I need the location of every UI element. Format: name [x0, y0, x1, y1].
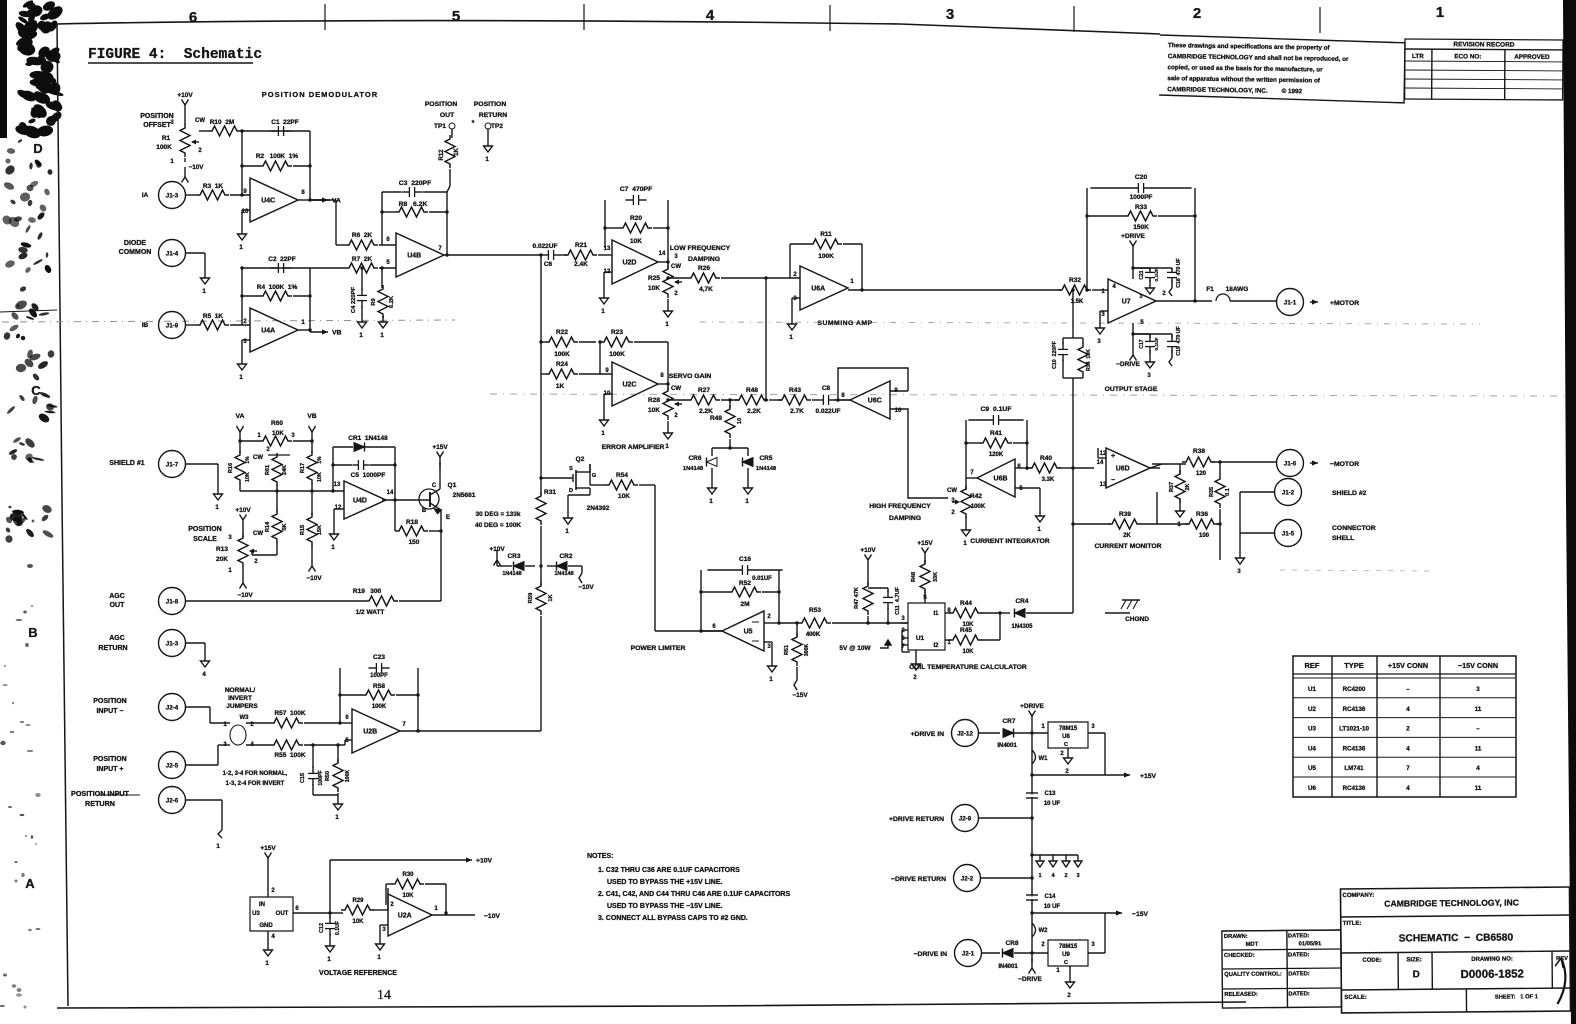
svg-text:R3 1K: R3 1K: [203, 183, 224, 190]
svg-text:J1-7: J1-7: [166, 462, 179, 469]
svg-text:FIGURE 4: Schematic: FIGURE 4: Schematic: [88, 47, 262, 63]
svg-text:J2-9: J2-9: [959, 816, 972, 823]
svg-text:RETURN: RETURN: [85, 799, 115, 808]
svg-text:14: 14: [387, 490, 394, 496]
svg-text:1K: 1K: [556, 383, 565, 390]
svg-text:POSITION DEMODULATOR: POSITION DEMODULATOR: [262, 90, 378, 99]
svg-text:GND: GND: [259, 923, 273, 929]
svg-text:120K: 120K: [989, 452, 1004, 458]
svg-text:CR3: CR3: [507, 553, 520, 560]
svg-text:CR5: CR5: [759, 455, 772, 462]
svg-text:R49: R49: [710, 415, 722, 422]
svg-text:C7 470PF: C7 470PF: [620, 186, 653, 193]
svg-text:−DRIVE RETURN: −DRIVE RETURN: [891, 876, 946, 883]
svg-text:C1 22PF: C1 22PF: [271, 119, 298, 126]
svg-text:1/2 WATT: 1/2 WATT: [356, 609, 385, 616]
svg-text:U9: U9: [1062, 952, 1070, 958]
svg-text:11: 11: [1475, 745, 1482, 752]
svg-text:JUMPERS: JUMPERS: [226, 703, 258, 710]
svg-text:VOLTAGE REFERENCE: VOLTAGE REFERENCE: [319, 970, 397, 977]
svg-text:R11: R11: [820, 231, 832, 238]
svg-text:R37: R37: [1169, 482, 1175, 492]
svg-text:+DRIVE: +DRIVE: [1121, 233, 1145, 240]
svg-text:J2-4: J2-4: [166, 705, 179, 712]
svg-text:3: 3: [1139, 294, 1142, 300]
svg-text:+10V: +10V: [860, 547, 876, 554]
svg-text:0.022UF: 0.022UF: [533, 243, 558, 250]
svg-text:SIZE:: SIZE:: [1406, 957, 1421, 963]
svg-text:U2C: U2C: [622, 382, 636, 389]
svg-text:CR6: CR6: [688, 455, 701, 462]
svg-text:R10 2M: R10 2M: [210, 119, 235, 126]
svg-text:RC4136: RC4136: [1343, 785, 1366, 792]
svg-text:R22: R22: [556, 329, 568, 336]
svg-text:LTR: LTR: [1412, 53, 1424, 60]
svg-text:RC4200: RC4200: [1343, 686, 1366, 693]
svg-text:SHEET: 1 OF 1: SHEET: 1 OF 1: [1495, 994, 1539, 1000]
svg-text:10 UF: 10 UF: [1044, 801, 1061, 807]
svg-text:R51: R51: [784, 645, 790, 655]
svg-text:300K: 300K: [804, 644, 810, 657]
svg-text:POSITION: POSITION: [474, 101, 507, 108]
svg-text:0.01UF: 0.01UF: [752, 576, 772, 582]
svg-text:2M: 2M: [740, 601, 749, 608]
svg-text:1%: 1%: [245, 456, 251, 464]
svg-text:R8 6.2K: R8 6.2K: [399, 201, 428, 208]
svg-text:100K: 100K: [372, 704, 387, 710]
svg-text:R43: R43: [789, 387, 801, 394]
svg-text:R28: R28: [648, 397, 660, 404]
svg-text:−10V: −10V: [306, 575, 322, 582]
svg-text:B: B: [28, 625, 37, 640]
svg-text:1-3, 2-4 FOR INVERT: 1-3, 2-4 FOR INVERT: [226, 781, 285, 787]
svg-text:C4 220PF: C4 220PF: [351, 286, 357, 313]
svg-text:2: 2: [1064, 873, 1067, 879]
svg-text:U6C: U6C: [868, 398, 882, 405]
svg-text:100K: 100K: [156, 144, 172, 151]
svg-text:R17: R17: [300, 463, 306, 473]
svg-text:2: 2: [1193, 5, 1201, 22]
svg-text:U6D: U6D: [1116, 466, 1130, 473]
svg-text:R45: R45: [960, 627, 972, 634]
svg-text:−DRIVE: −DRIVE: [1116, 361, 1140, 368]
svg-text:ECO NO:: ECO NO:: [1454, 53, 1481, 60]
svg-text:CONNECTOR: CONNECTOR: [1332, 525, 1376, 532]
svg-text:10K: 10K: [648, 285, 660, 292]
svg-text:CAMBRIDGE TECHNOLOGY, INC: CAMBRIDGE TECHNOLOGY, INC: [1384, 897, 1519, 908]
svg-text:1: 1: [1436, 4, 1444, 21]
svg-text:+10V: +10V: [177, 92, 193, 99]
svg-text:REVISION RECORD: REVISION RECORD: [1453, 41, 1514, 48]
svg-text:R13: R13: [216, 546, 228, 553]
svg-text:CR2: CR2: [559, 553, 572, 560]
svg-text:R4 100K 1%: R4 100K 1%: [257, 284, 298, 291]
svg-text:AGC: AGC: [109, 593, 125, 600]
svg-text:0.1: 0.1: [1225, 488, 1231, 496]
svg-text:2N4392: 2N4392: [587, 505, 610, 512]
svg-text:1-2, 3-4 FOR NORMAL,: 1-2, 3-4 FOR NORMAL,: [223, 771, 288, 777]
svg-text:100K: 100K: [554, 351, 570, 358]
svg-text:TITLE:: TITLE:: [1343, 921, 1362, 927]
svg-text:OUT: OUT: [110, 602, 126, 609]
svg-text:U5: U5: [1308, 765, 1316, 772]
svg-text:R7 2K: R7 2K: [352, 256, 373, 263]
svg-text:LT1021-10: LT1021-10: [1339, 726, 1369, 733]
svg-text:1N4305: 1N4305: [1011, 624, 1033, 630]
svg-text:R59: R59: [528, 592, 534, 603]
svg-text:1N4148: 1N4148: [683, 466, 704, 472]
svg-text:R38: R38: [1193, 448, 1205, 455]
svg-text:01/05/91: 01/05/91: [1299, 941, 1322, 947]
svg-text:C2 22PF: C2 22PF: [268, 256, 295, 263]
svg-text:−15V: −15V: [792, 692, 808, 699]
svg-text:SUMMING AMP: SUMMING AMP: [817, 320, 872, 327]
svg-text:ERROR AMPLIFIER: ERROR AMPLIFIER: [602, 444, 665, 451]
svg-text:CR7: CR7: [1002, 718, 1015, 725]
svg-text:NORMAL/: NORMAL/: [225, 687, 256, 694]
svg-text:3: 3: [1476, 686, 1480, 693]
svg-text:C21: C21: [1139, 270, 1145, 279]
svg-text:QUALITY CONTROL:: QUALITY CONTROL:: [1224, 972, 1282, 979]
svg-text:DATED:: DATED:: [1288, 952, 1310, 958]
svg-text:R50: R50: [325, 771, 331, 781]
svg-text:SERVO GAIN: SERVO GAIN: [669, 373, 712, 380]
svg-text:12: 12: [335, 505, 342, 511]
svg-text:4: 4: [1406, 745, 1410, 752]
svg-text:OUT: OUT: [276, 911, 289, 917]
svg-text:3. CONNECT ALL BYPASS CAPS TO: 3. CONNECT ALL BYPASS CAPS TO #2 GND.: [598, 915, 748, 922]
svg-text:−: −: [1111, 477, 1115, 484]
svg-text:U3: U3: [1308, 726, 1316, 733]
svg-text:4: 4: [1476, 765, 1480, 772]
svg-text:2: 2: [1406, 726, 1410, 733]
svg-text:COMMON: COMMON: [119, 249, 152, 256]
svg-text:R57 100K: R57 100K: [274, 710, 305, 717]
svg-text:VB: VB: [307, 413, 317, 420]
svg-text:100K: 100K: [818, 253, 834, 260]
svg-text:C3 220PF: C3 220PF: [399, 180, 432, 187]
svg-text:INPUT −: INPUT −: [96, 708, 123, 715]
svg-text:USED TO BYPASS THE −15V LINE.: USED TO BYPASS THE −15V LINE.: [607, 903, 723, 910]
svg-text:C5 1000PF: C5 1000PF: [351, 472, 386, 479]
svg-text:G: G: [592, 473, 596, 479]
svg-text:−15V CONN: −15V CONN: [1458, 661, 1498, 670]
svg-text:1000PF: 1000PF: [1130, 194, 1153, 201]
svg-text:1N4148: 1N4148: [554, 571, 573, 577]
svg-text:A: A: [25, 876, 35, 891]
svg-text:R52: R52: [739, 580, 751, 587]
svg-text:2.2K: 2.2K: [699, 408, 713, 415]
svg-text:IN4001: IN4001: [998, 964, 1018, 970]
svg-text:J1-6: J1-6: [1284, 461, 1297, 468]
svg-text:2.4K: 2.4K: [574, 261, 588, 268]
svg-text:W1: W1: [1039, 756, 1049, 762]
svg-text:2.2K: 2.2K: [747, 408, 761, 415]
svg-text:C8: C8: [822, 385, 831, 392]
svg-text:R2 100K 1%: R2 100K 1%: [256, 153, 298, 160]
svg-text:100K: 100K: [971, 504, 986, 510]
svg-text:150: 150: [409, 539, 420, 546]
svg-text:CW: CW: [671, 386, 681, 392]
svg-text:POSITION: POSITION: [425, 101, 458, 108]
svg-text:DAMPING: DAMPING: [889, 515, 921, 522]
svg-text:C13: C13: [1044, 791, 1056, 797]
svg-text:−10V: −10V: [484, 913, 501, 920]
svg-text:R24: R24: [556, 361, 568, 368]
svg-text:R53: R53: [809, 607, 821, 614]
svg-text:NOTES:: NOTES:: [587, 853, 613, 860]
svg-text:10K: 10K: [630, 238, 642, 245]
svg-text:5K: 5K: [282, 523, 288, 530]
svg-text:CR4: CR4: [1015, 598, 1028, 605]
svg-text:3: 3: [946, 6, 954, 23]
svg-text:C19 470 UF: C19 470 UF: [1176, 326, 1182, 355]
svg-text:R5 1K: R5 1K: [203, 313, 224, 320]
svg-text:CHECKED:: CHECKED:: [1224, 953, 1255, 959]
svg-text:100K: 100K: [345, 770, 351, 783]
svg-text:+DRIVE: +DRIVE: [1020, 703, 1044, 710]
svg-text:APPROVED: APPROVED: [1514, 54, 1550, 61]
svg-text:2K: 2K: [1123, 533, 1131, 539]
svg-text:U4B: U4B: [407, 253, 421, 260]
svg-text:TYPE: TYPE: [1344, 661, 1364, 670]
svg-text:−MOTOR: −MOTOR: [1330, 461, 1359, 468]
svg-text:POWER LIMITER: POWER LIMITER: [631, 645, 686, 652]
svg-text:12: 12: [1100, 451, 1107, 457]
svg-text:U8: U8: [1062, 734, 1070, 740]
svg-text:IN4001: IN4001: [997, 743, 1017, 749]
svg-text:400K: 400K: [806, 632, 821, 638]
svg-text:1K: 1K: [548, 593, 554, 601]
svg-text:R12: R12: [439, 149, 445, 161]
svg-text:R16: R16: [228, 463, 234, 473]
svg-text:R60: R60: [271, 420, 283, 427]
svg-text:C20: C20: [1135, 174, 1148, 181]
svg-text:R34 10K: R34 10K: [1086, 349, 1092, 371]
svg-text:33K: 33K: [933, 572, 939, 582]
svg-text:R6 2K: R6 2K: [352, 232, 373, 239]
svg-text:+15V: +15V: [917, 540, 933, 547]
svg-text:W2: W2: [1039, 928, 1049, 934]
svg-text:RETURN: RETURN: [479, 112, 507, 119]
svg-text:10K: 10K: [272, 430, 284, 437]
svg-text:C18 470 UF: C18 470 UF: [1176, 258, 1182, 287]
svg-text:D: D: [33, 141, 42, 156]
svg-text:−10V: −10V: [237, 592, 253, 599]
svg-text:3: 3: [1076, 873, 1079, 879]
svg-text:5: 5: [452, 8, 460, 25]
svg-text:C: C: [31, 383, 41, 398]
svg-text:OUTPUT STAGE: OUTPUT STAGE: [1105, 386, 1158, 393]
svg-text:SCALE: SCALE: [193, 536, 217, 543]
svg-text:U6: U6: [1308, 785, 1316, 792]
svg-text:VB: VB: [332, 330, 342, 337]
svg-text:10K: 10K: [648, 407, 660, 414]
svg-text:U5: U5: [744, 629, 753, 636]
svg-text:+15V CONN: +15V CONN: [1388, 661, 1428, 670]
svg-text:CHGND: CHGND: [1125, 616, 1149, 623]
svg-text:U4A: U4A: [261, 328, 275, 335]
svg-text:R39: R39: [1119, 511, 1131, 518]
svg-text:I2: I2: [933, 643, 939, 649]
svg-text:COIL TEMPERATURE CALCULATOR: COIL TEMPERATURE CALCULATOR: [909, 664, 1027, 671]
svg-text:C: C: [1064, 742, 1068, 748]
svg-text:+: +: [1111, 453, 1115, 460]
svg-text:100K: 100K: [609, 351, 625, 358]
svg-text:J1-9: J1-9: [166, 323, 179, 330]
svg-text:10K: 10K: [245, 472, 251, 482]
svg-text:SHELL: SHELL: [1332, 535, 1354, 542]
svg-text:CW: CW: [253, 455, 263, 461]
svg-text:R26: R26: [698, 265, 710, 272]
svg-text:4,7K: 4,7K: [699, 286, 713, 293]
svg-text:*: *: [472, 120, 475, 127]
svg-text:CW: CW: [195, 118, 205, 124]
svg-text:RELEASED:: RELEASED:: [1224, 992, 1258, 998]
svg-text:SHIELD #1: SHIELD #1: [109, 460, 145, 467]
svg-text:14: 14: [1097, 460, 1104, 466]
svg-text:RETURN: RETURN: [98, 645, 127, 652]
svg-text:C14: C14: [1044, 894, 1056, 900]
svg-text:E: E: [446, 515, 450, 521]
svg-text:CR8: CR8: [1005, 940, 1018, 947]
svg-text:R29: R29: [352, 898, 364, 904]
svg-text:C: C: [432, 483, 437, 489]
svg-text:R48: R48: [746, 387, 758, 394]
svg-text:U6A: U6A: [811, 286, 825, 293]
svg-text:J1-2: J1-2: [1282, 490, 1295, 497]
svg-text:U1: U1: [916, 635, 925, 642]
svg-text:D0006-1852: D0006-1852: [1461, 968, 1524, 981]
svg-text:−10V: −10V: [578, 584, 594, 591]
svg-text:10 UF: 10 UF: [1044, 904, 1061, 910]
svg-text:DRAWN:: DRAWN:: [1224, 934, 1248, 940]
svg-text:C15: C15: [300, 773, 306, 783]
svg-text:C23: C23: [373, 654, 385, 661]
svg-text:+DRIVE IN: +DRIVE IN: [911, 731, 945, 738]
svg-text:5V @ 10W: 5V @ 10W: [839, 645, 871, 652]
svg-text:I1: I1: [933, 611, 939, 617]
svg-text:–: –: [1406, 686, 1410, 693]
svg-text:LOW FREQUENCY: LOW FREQUENCY: [670, 245, 731, 252]
svg-text:1%: 1%: [317, 456, 323, 464]
svg-text:11: 11: [1475, 785, 1482, 792]
svg-text:COMPANY:: COMPANY:: [1343, 893, 1375, 899]
svg-text:2K: 2K: [1185, 483, 1191, 490]
svg-text:R42: R42: [970, 493, 982, 500]
svg-text:100PF: 100PF: [370, 673, 388, 679]
svg-text:78M15: 78M15: [1059, 944, 1078, 950]
svg-text:10K: 10K: [352, 919, 364, 925]
svg-text:RC4136: RC4136: [1343, 706, 1366, 713]
svg-text:0.1UF: 0.1UF: [335, 921, 341, 935]
svg-text:7: 7: [1406, 765, 1410, 772]
svg-text:U2D: U2D: [622, 260, 636, 267]
svg-text:VA: VA: [236, 413, 245, 420]
svg-text:+10V: +10V: [476, 858, 493, 865]
svg-text:CW: CW: [947, 488, 957, 494]
svg-text:15K: 15K: [317, 525, 323, 535]
svg-text:USED TO BYPASS THE +15V LINE.: USED TO BYPASS THE +15V LINE.: [607, 879, 723, 886]
svg-text:C12: C12: [319, 923, 325, 933]
svg-text:13: 13: [1100, 482, 1107, 488]
svg-text:R15: R15: [300, 525, 306, 535]
svg-text:R30: R30: [402, 872, 414, 878]
svg-text:R23: R23: [611, 329, 623, 336]
svg-text:2. C41, C42, AND C44 THRU C46: 2. C41, C42, AND C44 THRU C46 ARE 0.1UF …: [598, 891, 790, 898]
svg-text:U1: U1: [1308, 686, 1316, 693]
svg-text:DATED:: DATED:: [1288, 933, 1310, 939]
svg-text:30 DEG = 133k: 30 DEG = 133k: [476, 511, 521, 518]
svg-text:CW: CW: [671, 264, 681, 270]
svg-text:2.7K: 2.7K: [790, 408, 804, 415]
svg-text:TP1: TP1: [434, 123, 446, 130]
svg-text:LM741: LM741: [1344, 765, 1364, 772]
svg-text:R18: R18: [406, 519, 418, 526]
svg-text:R9: R9: [371, 298, 377, 306]
svg-text:U3: U3: [252, 911, 260, 917]
svg-text:10K: 10K: [962, 649, 974, 655]
svg-text:+10V: +10V: [235, 507, 251, 514]
svg-text:+15V: +15V: [1140, 773, 1157, 780]
svg-text:R54: R54: [616, 472, 628, 479]
svg-text:AGC: AGC: [109, 635, 125, 642]
svg-text:POSITION: POSITION: [93, 698, 126, 705]
svg-text:CURRENT INTEGRATOR: CURRENT INTEGRATOR: [970, 538, 1050, 545]
svg-text:U4C: U4C: [261, 198, 275, 205]
svg-text:DIODE: DIODE: [124, 240, 147, 247]
svg-text:R48: R48: [911, 572, 917, 582]
svg-text:R1: R1: [162, 135, 171, 142]
svg-text:R61: R61: [265, 465, 271, 475]
svg-text:CURRENT MONITOR: CURRENT MONITOR: [1094, 543, 1161, 550]
svg-text:J2-6: J2-6: [166, 798, 179, 805]
svg-text:OUT: OUT: [440, 112, 455, 119]
svg-text:Q1: Q1: [448, 482, 457, 489]
svg-text:U2B: U2B: [363, 729, 377, 736]
svg-text:−10V: −10V: [189, 164, 205, 171]
svg-text:U2A: U2A: [398, 913, 412, 920]
svg-text:+15V: +15V: [260, 845, 276, 852]
svg-text:J2-12: J2-12: [957, 731, 973, 738]
svg-text:13: 13: [334, 482, 341, 488]
svg-text:B: B: [422, 508, 427, 514]
svg-text:0.1UF: 0.1UF: [1154, 337, 1160, 350]
svg-text:R41: R41: [990, 430, 1002, 437]
svg-text:40 DEG = 100K: 40 DEG = 100K: [475, 522, 521, 529]
svg-text:MDT: MDT: [1246, 942, 1259, 948]
svg-text:POSITION: POSITION: [93, 756, 126, 763]
svg-text:INPUT +: INPUT +: [96, 766, 123, 773]
svg-text:DAMPING: DAMPING: [688, 256, 720, 263]
svg-text:U4: U4: [1308, 745, 1316, 752]
svg-text:R20: R20: [630, 215, 642, 222]
svg-text:F1: F1: [1206, 286, 1214, 293]
svg-text:2N5681: 2N5681: [453, 492, 476, 499]
svg-text:R32: R32: [1069, 277, 1081, 284]
svg-text:J2-1: J2-1: [962, 951, 975, 958]
svg-text:14: 14: [659, 251, 666, 257]
svg-text:CW: CW: [253, 531, 263, 537]
svg-text:120: 120: [1196, 471, 1207, 477]
svg-text:R44: R44: [960, 600, 972, 607]
svg-text:U2: U2: [1308, 706, 1316, 713]
svg-text:J1-5: J1-5: [1282, 531, 1295, 538]
svg-text:R25: R25: [648, 275, 660, 282]
svg-text:R47 47K: R47 47K: [854, 587, 860, 609]
svg-text:J1-4: J1-4: [166, 251, 179, 258]
svg-text:+10V: +10V: [489, 546, 505, 553]
